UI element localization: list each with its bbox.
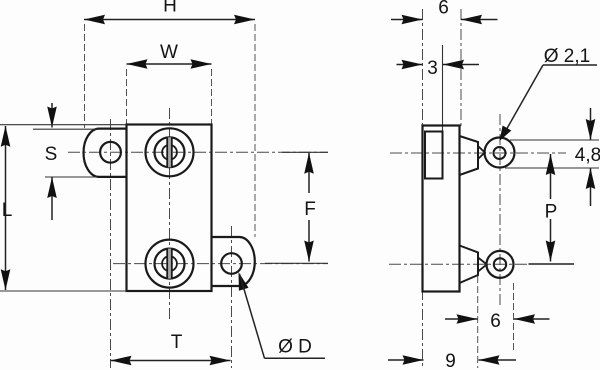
top lug hole (494, 147, 506, 159)
left ear tab (84, 129, 127, 177)
centerline horizontal through top holes (68, 151, 328, 153)
svg-text:9: 9 (445, 351, 456, 370)
svg-text:S: S (45, 144, 58, 165)
extension v for bottom 6 right (513, 283, 515, 350)
centerline vertical through big holes (left view) (169, 108, 171, 320)
extension line H right (254, 24, 256, 237)
svg-text:W: W (160, 42, 178, 63)
top screw hole outer washer (146, 128, 194, 176)
dimension 4,8 arrows (590, 108, 592, 140)
dimension H (84, 19, 255, 21)
dimension F (308, 153, 310, 193)
bottom screw hole outer washer (146, 240, 194, 288)
dimension 9 (388, 359, 424, 361)
extension right edge right view (460, 9, 462, 126)
svg-text:6: 6 (438, 0, 449, 19)
svg-text:T: T (171, 332, 183, 353)
extension line for 3 (442, 45, 444, 131)
svg-text:H: H (163, 0, 177, 17)
solid centerline segment under P arrow (529, 263, 575, 265)
centerline vertical through left ear hole (110, 119, 112, 368)
svg-text:Ø D: Ø D (278, 337, 312, 358)
top lug trapezoid (460, 136, 479, 175)
centerline horizontal bottom lug (389, 263, 528, 265)
svg-text:Ø 2,1: Ø 2,1 (544, 46, 590, 67)
dimension P (550, 154, 552, 199)
leader arrow OD (239, 272, 249, 291)
dimension 3 (397, 64, 423, 66)
dimension 4,8 extension lines (510, 139, 599, 141)
top small hole circle (162, 145, 177, 160)
centerline horizontal through bottom holes (113, 263, 328, 265)
top screw slot (167, 137, 172, 167)
extension v for bottom 6 left (477, 276, 479, 368)
extension line W left (126, 69, 128, 124)
dimension L (5, 126, 7, 290)
bottom screw head circle (155, 249, 185, 279)
extension line W right (211, 69, 213, 124)
dimension 6 top (391, 19, 423, 21)
svg-text:F: F (304, 199, 316, 220)
right ear hole (221, 253, 242, 274)
bottom lug trapezoid (460, 246, 479, 284)
right ear tab (212, 237, 255, 286)
dimension L extension bottom (0, 290, 127, 292)
dimension T (111, 360, 231, 362)
svg-text:6: 6 (490, 311, 501, 332)
bottom lug neck (478, 258, 487, 272)
dimension 6 bottom (445, 318, 478, 320)
F top extension solid segment (282, 151, 328, 153)
left ear hole (100, 142, 121, 163)
dimension W (127, 63, 212, 65)
dimension S extension bottom (45, 176, 97, 178)
bottom small hole circle (162, 256, 177, 271)
svg-text:4,8: 4,8 (575, 145, 600, 166)
top lug eyelet (485, 138, 515, 168)
body rectangle left view (127, 125, 212, 292)
centerline vertical through lugs (499, 114, 501, 307)
svg-text:3: 3 (427, 58, 438, 79)
svg-text:L: L (2, 200, 13, 221)
bottom lug hole (494, 258, 506, 270)
centerline horizontal top lug (390, 152, 566, 154)
top screw head circle (155, 137, 185, 167)
svg-text:P: P (545, 202, 558, 223)
bottom screw slot (167, 249, 172, 279)
dimension S arrows (51, 103, 53, 128)
long centerline left edge right view (422, 9, 424, 368)
top lug neck (478, 146, 485, 159)
bottom lug eyelet (487, 251, 514, 278)
body rectangle right view (423, 126, 460, 292)
centerline vertical through right ear hole (231, 226, 233, 368)
inner rectangle (element) (425, 132, 443, 179)
dimension L extension top (0, 124, 127, 126)
F bottom extension (265, 262, 328, 264)
extension line H left (84, 24, 86, 128)
dimension S extension top (33, 128, 98, 130)
